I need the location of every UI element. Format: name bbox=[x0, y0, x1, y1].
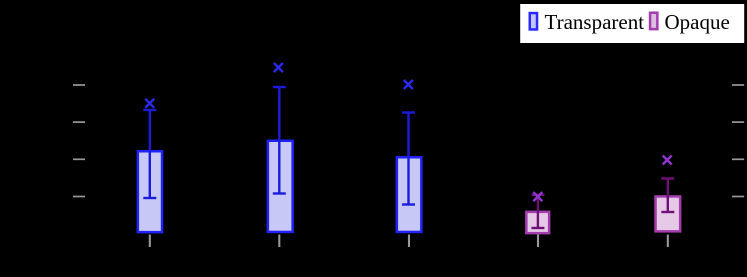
svg-text:Transparent: Transparent bbox=[545, 10, 645, 34]
svg-text:Opaque: Opaque bbox=[665, 10, 730, 34]
